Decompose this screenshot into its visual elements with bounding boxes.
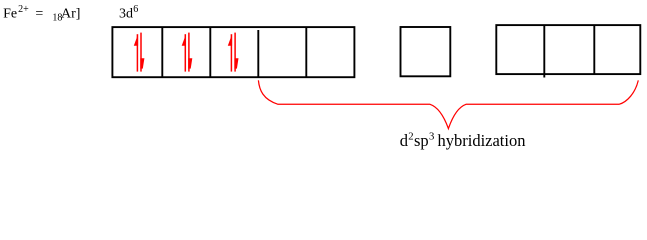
svg-text:6: 6 [133,4,138,15]
svg-text:=: = [35,7,43,22]
red under-brace [258,80,638,128]
divider 2 [209,27,211,77]
divider 3 [257,30,259,77]
4s orbital box [401,27,451,76]
svg-text:2+: 2+ [18,4,29,15]
svg-text:3: 3 [429,131,434,143]
electron pair arrows box 3 [228,33,239,72]
svg-text:sp: sp [414,131,429,150]
svg-text:Fe: Fe [3,7,17,22]
label d2sp3 hybridization [400,131,526,150]
electron pair arrows box 1 [134,33,145,72]
divider 1 [161,27,163,77]
svg-text:3d: 3d [119,7,133,22]
svg-text:Ar]: Ar] [61,7,80,22]
divider 4 [305,27,307,78]
svg-text:2: 2 [408,131,413,143]
4p orbital box group (3 boxes) [496,25,640,77]
electron pair arrows box 2 [182,33,193,72]
3d orbital box group (5 boxes) [112,27,354,78]
svg-text:hybridization: hybridization [438,131,526,150]
